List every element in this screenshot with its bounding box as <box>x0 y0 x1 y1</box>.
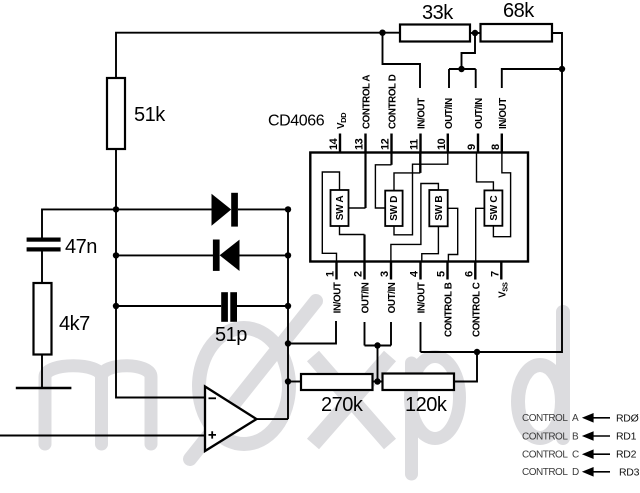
IC U2 CD4066 body <box>310 153 528 262</box>
wire pin 4 up <box>420 322 422 352</box>
svg-text:3: 3 <box>379 271 391 277</box>
svg-text:33k: 33k <box>422 2 454 24</box>
ground <box>16 387 72 390</box>
op-amp U1 <box>205 387 257 452</box>
node bus/D1 <box>285 206 291 212</box>
pin 14 stub <box>339 134 341 153</box>
pin 10 stub <box>447 134 449 153</box>
svg-text:SW A: SW A <box>335 196 346 221</box>
wire pin 1 to bus <box>288 321 336 344</box>
svg-text:SW D: SW D <box>389 196 400 221</box>
wire to diode D2 <box>116 254 213 256</box>
diode D1 <box>212 194 232 226</box>
node branch D2 <box>113 252 119 258</box>
svg-text:SW C: SW C <box>489 196 500 221</box>
svg-text:IN/OUT: IN/OUT <box>498 98 509 129</box>
node bus/pin1 wire <box>285 340 291 346</box>
diode D2 <box>213 240 220 271</box>
node pins 9/10 split <box>458 66 464 72</box>
svg-text:47n: 47n <box>65 236 97 258</box>
wire SW C bottom terminal to pin 8 <box>493 153 510 237</box>
switch SW A box <box>331 190 349 226</box>
svg-text:A: A <box>572 413 579 424</box>
arrow RD3 to CONTROL D <box>592 471 611 473</box>
svg-text:CONTROL B: CONTROL B <box>444 282 455 337</box>
wire D1 to bus <box>238 208 288 210</box>
wire 4k7 to ground <box>41 355 43 389</box>
svg-text:CONTROL: CONTROL <box>522 450 568 461</box>
wire SW D bottom terminal to pin 10 <box>394 153 448 235</box>
node branch 51p <box>113 303 119 309</box>
node bus/270k <box>285 378 291 384</box>
wire SW B bottom terminal to pin 4 <box>422 226 439 261</box>
wire to capacitor 51p <box>116 305 221 307</box>
svg-text:14: 14 <box>328 137 340 150</box>
svg-text:4k7: 4k7 <box>59 313 90 335</box>
pin 9 stub <box>477 134 479 153</box>
svg-text:IN/OUT: IN/OUT <box>333 282 344 313</box>
pin 2 stub <box>363 262 365 280</box>
node pins 2/3 tie <box>374 342 380 348</box>
svg-text:OUT/IN: OUT/IN <box>361 282 372 313</box>
svg-text:OUT/IN: OUT/IN <box>474 98 485 129</box>
svg-text:CONTROL: CONTROL <box>522 413 568 424</box>
svg-text:D: D <box>572 467 579 478</box>
svg-text:2: 2 <box>353 271 365 277</box>
svg-text:CONTROL: CONTROL <box>522 467 568 478</box>
wire junction up to pins 2/3 <box>377 346 379 382</box>
wire SW A bottom terminal to pin 2 <box>340 226 365 235</box>
svg-text:5: 5 <box>436 271 448 277</box>
wire SW A top terminal to pin 1 <box>322 172 339 262</box>
wire vertical bus right of diodes <box>287 209 289 419</box>
svg-text:B: B <box>572 432 579 443</box>
wire SW B top terminal to pin 3 <box>391 184 439 262</box>
wire SW D control to pin 12 <box>375 165 391 208</box>
svg-text:CONTROL A: CONTROL A <box>362 75 373 129</box>
svg-text:CONTROL: CONTROL <box>522 432 568 443</box>
svg-text:RDØ: RDØ <box>616 413 639 425</box>
wire bus to 270k <box>288 381 301 383</box>
resistor R 33k <box>400 25 470 42</box>
wire op-amp output to bus <box>257 418 289 420</box>
pin 7 stub <box>500 262 502 280</box>
resistor R 68k <box>481 24 553 42</box>
switch SW B box <box>429 190 447 226</box>
wire to diode D1 <box>116 208 212 210</box>
svg-text:8: 8 <box>490 144 502 150</box>
wire 270k to 120k <box>373 381 383 383</box>
svg-text:VSS: VSS <box>497 282 509 298</box>
wire SW C control to pin 6 <box>476 208 485 261</box>
wire op-amp + input from left edge <box>0 435 205 437</box>
svg-text:51k: 51k <box>134 104 166 126</box>
pin 13 stub <box>364 134 366 153</box>
svg-text:12: 12 <box>380 138 392 150</box>
wire 68k right end down right side to pin 4 <box>421 33 563 352</box>
svg-text:RD3: RD3 <box>619 467 640 479</box>
switch SW C box <box>484 190 502 225</box>
wire 51p to bus <box>237 305 288 307</box>
wire D2 to bus <box>240 254 289 256</box>
svg-text:CONTROL D: CONTROL D <box>388 74 399 129</box>
svg-text:4: 4 <box>409 270 421 277</box>
svg-text:OUT/IN: OUT/IN <box>444 98 455 129</box>
node branch D1 <box>113 206 119 212</box>
pin 8 stub <box>501 134 503 153</box>
wire branch top to pin 11 <box>383 33 421 88</box>
arrow RD2 to CONTROL C <box>592 453 611 455</box>
pin 11 stub <box>419 134 421 153</box>
svg-text:6: 6 <box>463 271 475 277</box>
wire top horizontal from 51k to 33k <box>116 33 400 78</box>
wire branch to pin 8 <box>502 69 562 88</box>
wire to capacitor 47n <box>42 209 116 237</box>
svg-text:C: C <box>572 450 579 461</box>
svg-text:IN/OUT: IN/OUT <box>417 282 428 313</box>
svg-text:CONTROL C: CONTROL C <box>471 282 482 337</box>
svg-text:9: 9 <box>466 144 478 150</box>
node 120k/right line <box>474 349 480 355</box>
svg-text:10: 10 <box>436 138 448 150</box>
node right side to pin 8 <box>559 66 565 72</box>
svg-text:11: 11 <box>409 139 421 150</box>
pin 12 stub <box>390 134 392 153</box>
arrow RD0 to CONTROL A <box>592 417 611 419</box>
pin 1 stub <box>335 262 337 280</box>
svg-text:OUT/IN: OUT/IN <box>387 282 398 313</box>
resistor R 51k <box>107 78 125 149</box>
svg-text:SW B: SW B <box>434 196 445 221</box>
wire 47n to 4k7 <box>41 252 43 284</box>
node junction top wire <box>379 30 385 36</box>
arrow RD1 to CONTROL B <box>592 435 611 437</box>
svg-text:CD4066: CD4066 <box>268 113 325 130</box>
node bus/51p <box>285 303 291 309</box>
wire 120k right jog up <box>454 352 477 382</box>
resistor R 120k <box>383 374 455 391</box>
svg-text:13: 13 <box>354 138 366 150</box>
capacitor C 47n <box>27 238 61 242</box>
pin 4 stub <box>419 262 421 280</box>
node bus/D2 <box>285 252 291 258</box>
resistor R 270k <box>301 374 373 390</box>
wire SW B control to pin 5 <box>448 208 458 261</box>
svg-text:VDD: VDD <box>336 112 348 129</box>
wire between 33k and 68k <box>470 32 481 34</box>
pin 5 stub <box>446 262 448 280</box>
resistor R 4k7 <box>34 283 52 355</box>
wire junction down to pins 10/9 <box>462 33 476 69</box>
wire SW A control to pin 13 <box>349 207 366 209</box>
pin 3 stub <box>390 262 392 280</box>
node 33k/68k junction <box>472 30 478 36</box>
svg-text:68k: 68k <box>503 0 535 22</box>
node 270k/120k junction <box>374 378 380 384</box>
svg-text:270k: 270k <box>321 394 364 416</box>
switch SW D box <box>385 191 402 226</box>
wire SW D top terminal to pin 11 <box>394 173 420 191</box>
capacitor C 51p <box>221 292 228 322</box>
svg-text:7: 7 <box>489 271 501 277</box>
svg-text:IN/OUT: IN/OUT <box>417 98 428 129</box>
wire 51k down to op-amp inverting input <box>116 149 205 398</box>
wire SW C top terminal to pin 9 <box>477 153 494 191</box>
svg-text:RD1: RD1 <box>616 431 637 443</box>
svg-text:51p: 51p <box>215 324 247 346</box>
svg-text:120k: 120k <box>405 394 448 416</box>
watermark m0xpd <box>45 301 563 474</box>
svg-text:RD2: RD2 <box>616 449 637 461</box>
svg-text:1: 1 <box>325 271 337 277</box>
pin 6 stub <box>474 262 476 280</box>
